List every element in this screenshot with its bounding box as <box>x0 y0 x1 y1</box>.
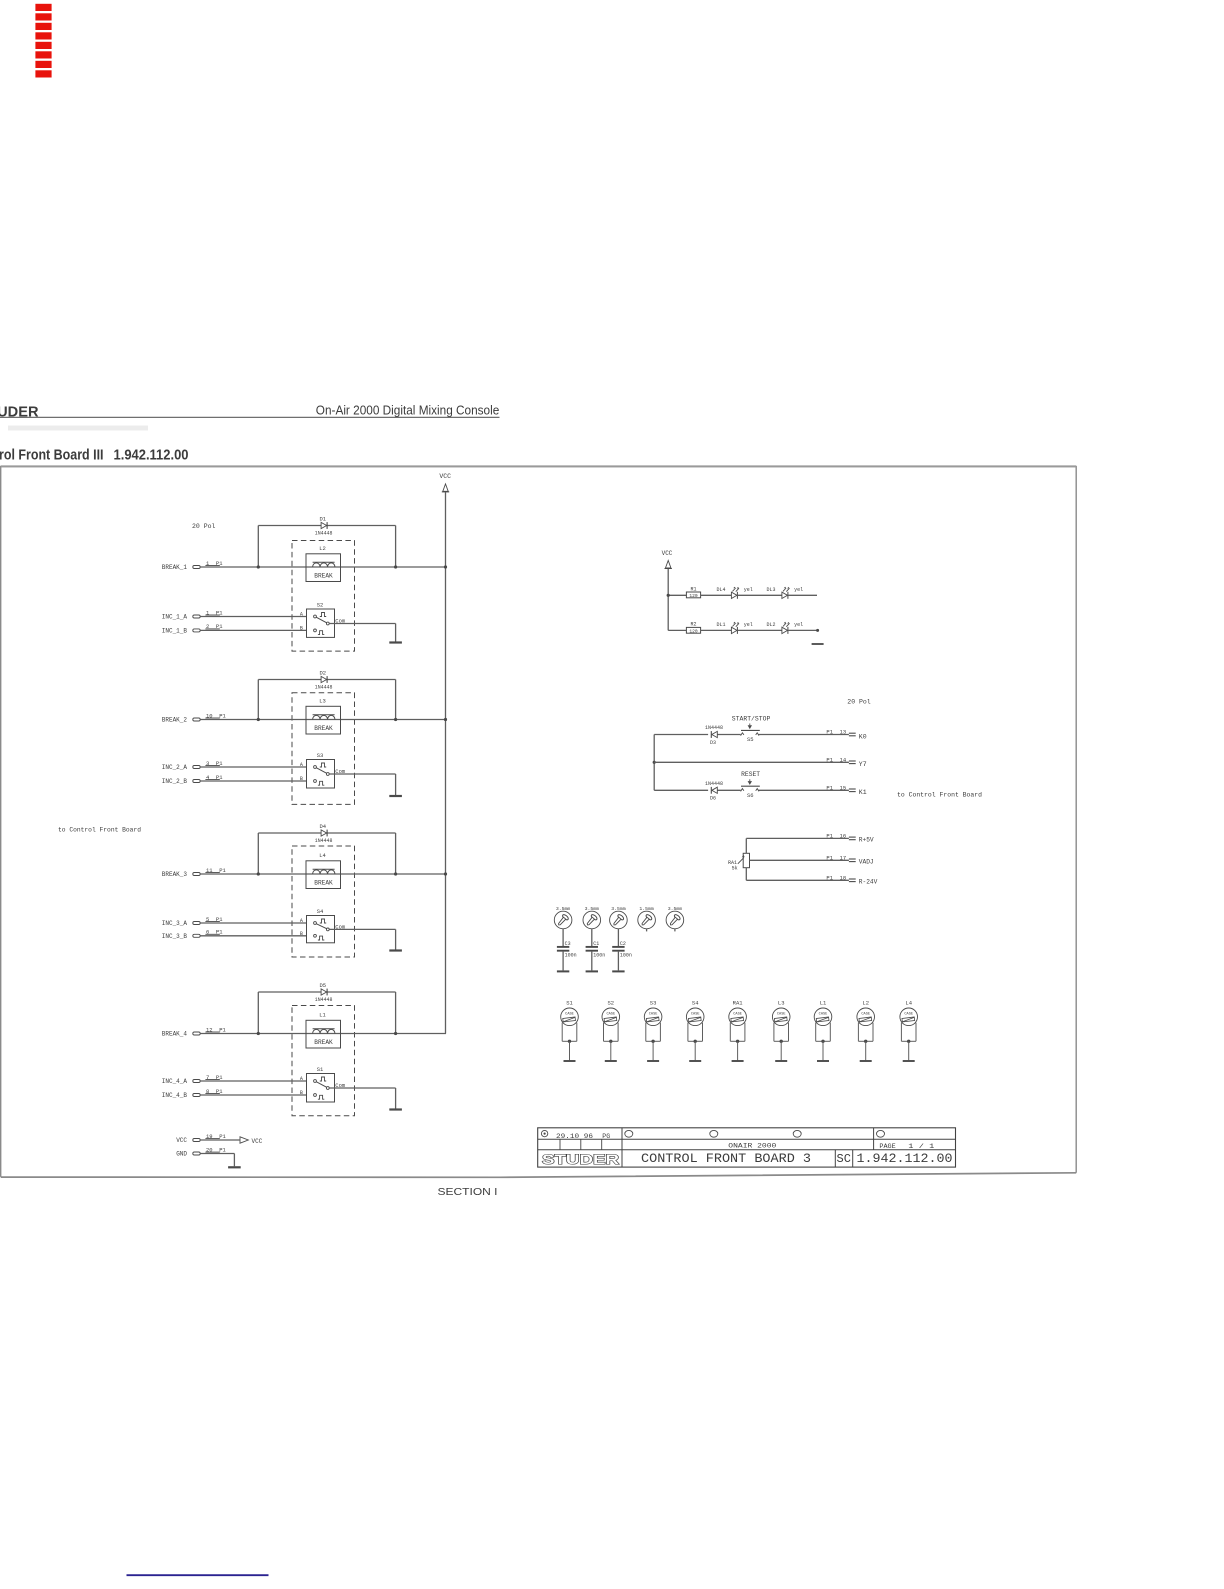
wire VCC to LED rows <box>668 569 686 630</box>
mounting case L2 <box>857 1000 875 1061</box>
schematic frame bottom edge <box>1 1173 1077 1178</box>
mounting case L3 <box>772 1000 790 1061</box>
svg-text:CASE: CASE <box>861 1013 870 1017</box>
svg-text:S1: S1 <box>566 1000 573 1007</box>
mounting case S3 <box>644 1000 662 1061</box>
title block date stamp <box>541 1130 610 1140</box>
svg-text:1N4448: 1N4448 <box>705 725 723 731</box>
relay dashed box L2/S2 <box>292 541 355 652</box>
svg-text:rol Front Board III: rol Front Board III <box>0 447 104 464</box>
switch S2 <box>300 601 346 637</box>
wire diode loop D2 <box>258 680 395 720</box>
svg-text:yel: yel <box>794 587 803 593</box>
node BREAK_1 <box>162 560 223 571</box>
node GND pin 20 <box>176 1146 226 1157</box>
ground (LED rows) <box>812 643 824 645</box>
node INC_2_A <box>162 760 223 771</box>
wire INC_3_B <box>200 935 306 937</box>
svg-text:B: B <box>300 626 303 632</box>
pin P1 15 <box>826 785 855 792</box>
wire VCC pin to arrow <box>200 1139 239 1141</box>
wire DL3 out <box>788 594 817 596</box>
ground (GND pin) <box>228 1166 241 1168</box>
svg-text:INC_4_B: INC_4_B <box>162 1092 188 1099</box>
diode D2 1N4448 <box>315 670 333 691</box>
title block page <box>879 1143 934 1151</box>
node BREAK_2 <box>162 712 227 723</box>
node INC_4_B <box>162 1088 223 1099</box>
svg-text:VCC: VCC <box>252 1138 263 1145</box>
ground (C1) <box>586 970 598 972</box>
svg-text:K0: K0 <box>859 733 867 740</box>
svg-text:Y7: Y7 <box>859 761 867 768</box>
switch S6 (pushbutton) <box>741 789 744 792</box>
svg-text:P1 18: P1 18 <box>826 875 846 882</box>
svg-text:5k: 5k <box>732 866 738 872</box>
wire RA1 top to P1 16 <box>746 838 849 853</box>
pin P1 14 <box>826 757 855 764</box>
wire DL1 to DL2 <box>737 629 782 631</box>
svg-text:D3: D3 <box>710 740 716 746</box>
wire RESET row <box>654 789 849 791</box>
svg-text:yel: yel <box>794 622 803 628</box>
svg-text:DL4: DL4 <box>716 587 725 593</box>
ground (block S1) <box>389 1108 402 1110</box>
svg-text:S4: S4 <box>317 908 324 915</box>
wire INC_4_B <box>200 1094 306 1096</box>
svg-text:INC_1_A: INC_1_A <box>162 614 188 621</box>
svg-text:VCC: VCC <box>439 473 451 480</box>
svg-text:D2: D2 <box>319 670 326 677</box>
node INC_3_A <box>162 916 223 927</box>
svg-text:1N4448: 1N4448 <box>315 837 333 844</box>
junction (LED rail) <box>667 594 670 597</box>
wire INC_3_A <box>200 922 306 924</box>
wire BREAK_1 <box>200 566 445 568</box>
svg-text:S2: S2 <box>607 1000 614 1007</box>
ground (C3) <box>557 970 569 972</box>
node INC_2_B <box>162 774 223 785</box>
svg-text:1N4448: 1N4448 <box>315 684 333 691</box>
svg-text:yel: yel <box>744 622 753 628</box>
svg-text:L4: L4 <box>319 852 326 859</box>
svg-text:S5: S5 <box>747 736 754 743</box>
svg-text:CASE: CASE <box>819 1013 828 1017</box>
wire DL4 to DL3 <box>737 594 782 596</box>
svg-text:INC_2_B: INC_2_B <box>162 778 188 785</box>
resistor R2 120 <box>686 622 700 635</box>
svg-text:P1 17: P1 17 <box>826 855 846 862</box>
wire INC_2_B <box>200 780 306 782</box>
wire Y7 row <box>654 761 849 763</box>
svg-text:P1 14: P1 14 <box>826 757 847 764</box>
capacitor C3 100n <box>557 941 577 958</box>
svg-text:SECTION I: SECTION I <box>438 1186 498 1198</box>
svg-text:20 Pol: 20 Pol <box>847 699 871 706</box>
ground (C2) <box>612 970 624 972</box>
switch S4 <box>300 908 346 943</box>
svg-text:CASE: CASE <box>691 1013 700 1017</box>
diode D1 1N4448 <box>315 516 333 537</box>
node BREAK_4 <box>162 1026 227 1037</box>
svg-text:S4: S4 <box>692 1000 699 1007</box>
relay coil L3 BREAK <box>306 698 341 735</box>
diode D3 1N4448 <box>705 725 723 746</box>
wire diode loop D1 <box>258 526 395 568</box>
wire C2 to ground <box>617 952 619 971</box>
wire START/STOP row <box>654 734 849 736</box>
junction dots <box>257 565 447 568</box>
LED DL3 yel <box>766 587 803 599</box>
junction dots <box>257 872 447 875</box>
relay dashed box L3/S3 <box>292 693 355 805</box>
svg-text:A: A <box>300 762 303 768</box>
relay dashed box L1/S1 <box>292 1006 355 1116</box>
ground (block S4) <box>389 949 402 951</box>
node INC_1_A <box>162 609 223 620</box>
svg-text:120: 120 <box>689 593 698 599</box>
svg-text:PG: PG <box>602 1133 610 1140</box>
svg-text:CASE: CASE <box>777 1013 786 1017</box>
svg-text:INC_4_A: INC_4_A <box>162 1078 188 1085</box>
svg-text:to Control Front Board: to Control Front Board <box>897 791 982 798</box>
svg-text:L1: L1 <box>319 1012 326 1019</box>
svg-text:RA1: RA1 <box>733 1000 744 1007</box>
relay coil L2 BREAK <box>306 545 341 582</box>
mounting case RA1 <box>729 1000 747 1061</box>
svg-text:A: A <box>300 918 303 924</box>
wire screw to C2 <box>617 929 619 946</box>
svg-text:29.10 96: 29.10 96 <box>556 1133 593 1140</box>
svg-text:SC: SC <box>837 1152 851 1166</box>
svg-text:L4: L4 <box>905 1000 912 1007</box>
pin P1 16 <box>826 833 855 840</box>
svg-text:PAGE: PAGE <box>879 1143 895 1151</box>
pin P1 17 <box>826 855 855 862</box>
relay dashed box L4/S4 <box>292 846 355 957</box>
svg-text:CASE: CASE <box>733 1013 742 1017</box>
switch S1 <box>300 1066 346 1102</box>
mounting case S1 <box>561 1000 579 1061</box>
svg-text:1.942.112.00: 1.942.112.00 <box>857 1151 953 1166</box>
svg-text:CASE: CASE <box>904 1013 913 1017</box>
mounting case S2 <box>602 1000 620 1061</box>
svg-text:R1: R1 <box>690 586 696 592</box>
svg-text:1N4448: 1N4448 <box>705 781 723 787</box>
svg-text:GND: GND <box>176 1151 187 1158</box>
svg-text:S3: S3 <box>317 752 324 759</box>
svg-text:BREAK: BREAK <box>314 1039 333 1046</box>
svg-text:to Control Front Board: to Control Front Board <box>58 827 141 834</box>
svg-text:L3: L3 <box>319 698 326 705</box>
title block table <box>538 1128 956 1167</box>
wire BREAK_2 <box>200 719 445 721</box>
diode D5 1N4448 <box>315 982 333 1003</box>
node INC_3_B <box>162 929 223 940</box>
svg-text:D4: D4 <box>319 823 326 830</box>
screw 1.5mm #4 <box>638 906 656 929</box>
diode D4 1N4448 <box>315 823 333 844</box>
pin P1 18 <box>826 875 855 882</box>
svg-text:INC_1_B: INC_1_B <box>162 628 188 635</box>
wire S3 Com to ground <box>329 774 395 795</box>
svg-text:100n: 100n <box>620 953 632 959</box>
svg-text:B: B <box>300 776 303 782</box>
svg-text:yel: yel <box>744 587 753 593</box>
svg-text:BREAK: BREAK <box>314 880 333 887</box>
svg-text:RESET: RESET <box>741 771 760 778</box>
wire RA1 wiper to P1 17 <box>750 859 849 861</box>
screw stub <box>674 929 676 932</box>
svg-text:CASE: CASE <box>606 1013 615 1017</box>
svg-text:L2: L2 <box>319 545 326 552</box>
wire INC_4_A <box>200 1080 306 1082</box>
relay coil L1 BREAK <box>306 1012 341 1049</box>
pin P1 13 <box>826 729 855 736</box>
screw 3.5mm #1 <box>554 906 572 929</box>
screw stub <box>646 929 648 932</box>
power symbol VCC (LED section) <box>662 550 673 569</box>
relay coil L4 BREAK <box>306 852 341 889</box>
svg-text:S2: S2 <box>317 601 324 608</box>
wire BREAK_3 <box>200 873 445 875</box>
node INC_4_A <box>162 1074 223 1085</box>
svg-text:INC_3_B: INC_3_B <box>162 933 188 940</box>
wire diode loop D4 <box>258 833 395 874</box>
svg-text:BREAK_1: BREAK_1 <box>162 564 188 571</box>
wire C3 to ground <box>562 952 564 971</box>
power symbol VCC main <box>439 473 451 492</box>
LED DL2 yel <box>766 622 803 634</box>
wire RA1 bottom to P1 18 <box>746 868 849 881</box>
svg-text:L3: L3 <box>778 1000 785 1007</box>
wire BREAK_4 <box>200 1033 446 1035</box>
node VCC pin 19 <box>176 1133 226 1144</box>
svg-text:L2: L2 <box>862 1000 869 1007</box>
node (row end) <box>816 629 819 632</box>
svg-text:100n: 100n <box>593 953 605 959</box>
LED DL1 yel <box>716 622 752 634</box>
svg-text:1 / 1: 1 / 1 <box>908 1143 934 1151</box>
svg-text:DL3: DL3 <box>766 587 775 593</box>
svg-text:D1: D1 <box>319 516 326 523</box>
wire DL2 out <box>788 629 818 631</box>
svg-text:B: B <box>300 931 303 937</box>
wire INC_2_A <box>200 766 306 768</box>
junction dots <box>257 718 447 721</box>
svg-text:VCC: VCC <box>662 550 673 557</box>
svg-text:A: A <box>300 1076 303 1082</box>
schematic frame <box>1 467 1077 1177</box>
node BREAK_3 <box>162 867 227 878</box>
svg-text:1N4448: 1N4448 <box>315 530 333 537</box>
wire S1 Com to ground <box>329 1088 395 1109</box>
header rule <box>0 416 500 418</box>
node INC_1_B <box>162 623 223 634</box>
svg-text:1.942.112.00: 1.942.112.00 <box>114 447 189 464</box>
svg-text:20 Pol: 20 Pol <box>192 523 216 530</box>
mounting case L4 <box>900 1000 918 1061</box>
svg-text:INC_2_A: INC_2_A <box>162 764 188 771</box>
screw 3.5mm #5 <box>666 906 684 929</box>
svg-text:A: A <box>300 611 303 617</box>
svg-text:DL1: DL1 <box>716 622 725 628</box>
diode D6 1N4448 <box>705 781 723 802</box>
svg-text:R-24V: R-24V <box>859 878 878 885</box>
svg-text:P1 15: P1 15 <box>826 785 846 792</box>
wire screw to C1 <box>591 929 593 946</box>
svg-text:CASE: CASE <box>565 1013 574 1017</box>
svg-text:INC_3_A: INC_3_A <box>162 920 188 927</box>
wire INC_1_A <box>200 616 306 618</box>
resistor R1 120 <box>686 586 700 599</box>
svg-text:BREAK_4: BREAK_4 <box>162 1031 188 1038</box>
LED DL4 yel <box>716 587 752 599</box>
wire R1 to DL4 <box>701 594 732 596</box>
svg-text:P1 16: P1 16 <box>826 833 846 840</box>
wire R2 to DL1 <box>701 629 732 631</box>
svg-text:BREAK_3: BREAK_3 <box>162 871 188 878</box>
wire left bus (switch section) <box>653 735 655 791</box>
svg-text:R+5V: R+5V <box>859 836 874 843</box>
switch S3 <box>300 752 346 788</box>
wire diode loop D5 <box>258 992 395 1034</box>
svg-text:P1 13: P1 13 <box>826 729 846 736</box>
capacitor C1 100n <box>586 941 606 958</box>
wire C1 to ground <box>591 952 593 971</box>
svg-text:ONAIR 2000: ONAIR 2000 <box>728 1142 776 1150</box>
svg-text:CONTROL FRONT BOARD 3: CONTROL FRONT BOARD 3 <box>641 1151 811 1166</box>
wire S4 Com to ground <box>329 929 395 949</box>
svg-text:D6: D6 <box>710 796 716 802</box>
screw 3.5mm #2 <box>583 906 601 929</box>
svg-text:S1: S1 <box>317 1066 324 1073</box>
svg-text:BREAK_2: BREAK_2 <box>162 717 188 724</box>
screw 3.5mm #3 <box>610 906 628 929</box>
scan smear <box>8 426 148 431</box>
arrow VCC (net pointer) <box>240 1137 263 1145</box>
title block revision circles <box>625 1130 885 1137</box>
wire screw to C3 <box>562 929 564 946</box>
svg-text:100n: 100n <box>565 953 577 959</box>
switch S5 (pushbutton) <box>741 733 744 736</box>
svg-text:START/STOP: START/STOP <box>732 715 771 722</box>
svg-text:L1: L1 <box>820 1000 827 1007</box>
title block STUDER logo <box>542 1151 620 1167</box>
junction (switch bus) <box>653 761 656 764</box>
svg-text:VADJ: VADJ <box>859 858 874 865</box>
svg-text:K1: K1 <box>859 789 867 796</box>
scan artifact red dashes <box>35 4 51 78</box>
svg-text:STUDER: STUDER <box>542 1151 620 1167</box>
ground (block S2) <box>389 641 402 643</box>
svg-text:S3: S3 <box>650 1000 657 1007</box>
wire VCC rail vertical <box>445 492 447 1034</box>
svg-text:1N4448: 1N4448 <box>315 996 333 1003</box>
svg-text:B: B <box>300 1090 303 1096</box>
footnote rule (blue) <box>127 1574 269 1576</box>
wire S2 Com to ground <box>329 624 395 642</box>
mounting case L1 <box>814 1000 832 1061</box>
svg-text:BREAK: BREAK <box>314 573 333 580</box>
svg-text:S6: S6 <box>747 792 754 799</box>
junction dots <box>257 1032 398 1035</box>
ground (block S3) <box>389 795 402 797</box>
svg-text:120: 120 <box>689 629 698 635</box>
wire GND pin <box>200 1154 234 1167</box>
svg-text:VCC: VCC <box>176 1137 187 1144</box>
svg-text:D5: D5 <box>319 982 326 989</box>
capacitor C2 100n <box>612 941 632 958</box>
svg-text:R2: R2 <box>690 622 696 628</box>
trimmer RA1 5k <box>728 853 750 871</box>
svg-text:On-Air 2000 Digital Mixing Con: On-Air 2000 Digital Mixing Console <box>316 403 500 418</box>
wire INC_1_B <box>200 629 306 631</box>
svg-text:CASE: CASE <box>649 1013 658 1017</box>
svg-text:BREAK: BREAK <box>314 725 333 732</box>
svg-text:DL2: DL2 <box>766 622 775 628</box>
mounting case S4 <box>686 1000 704 1061</box>
